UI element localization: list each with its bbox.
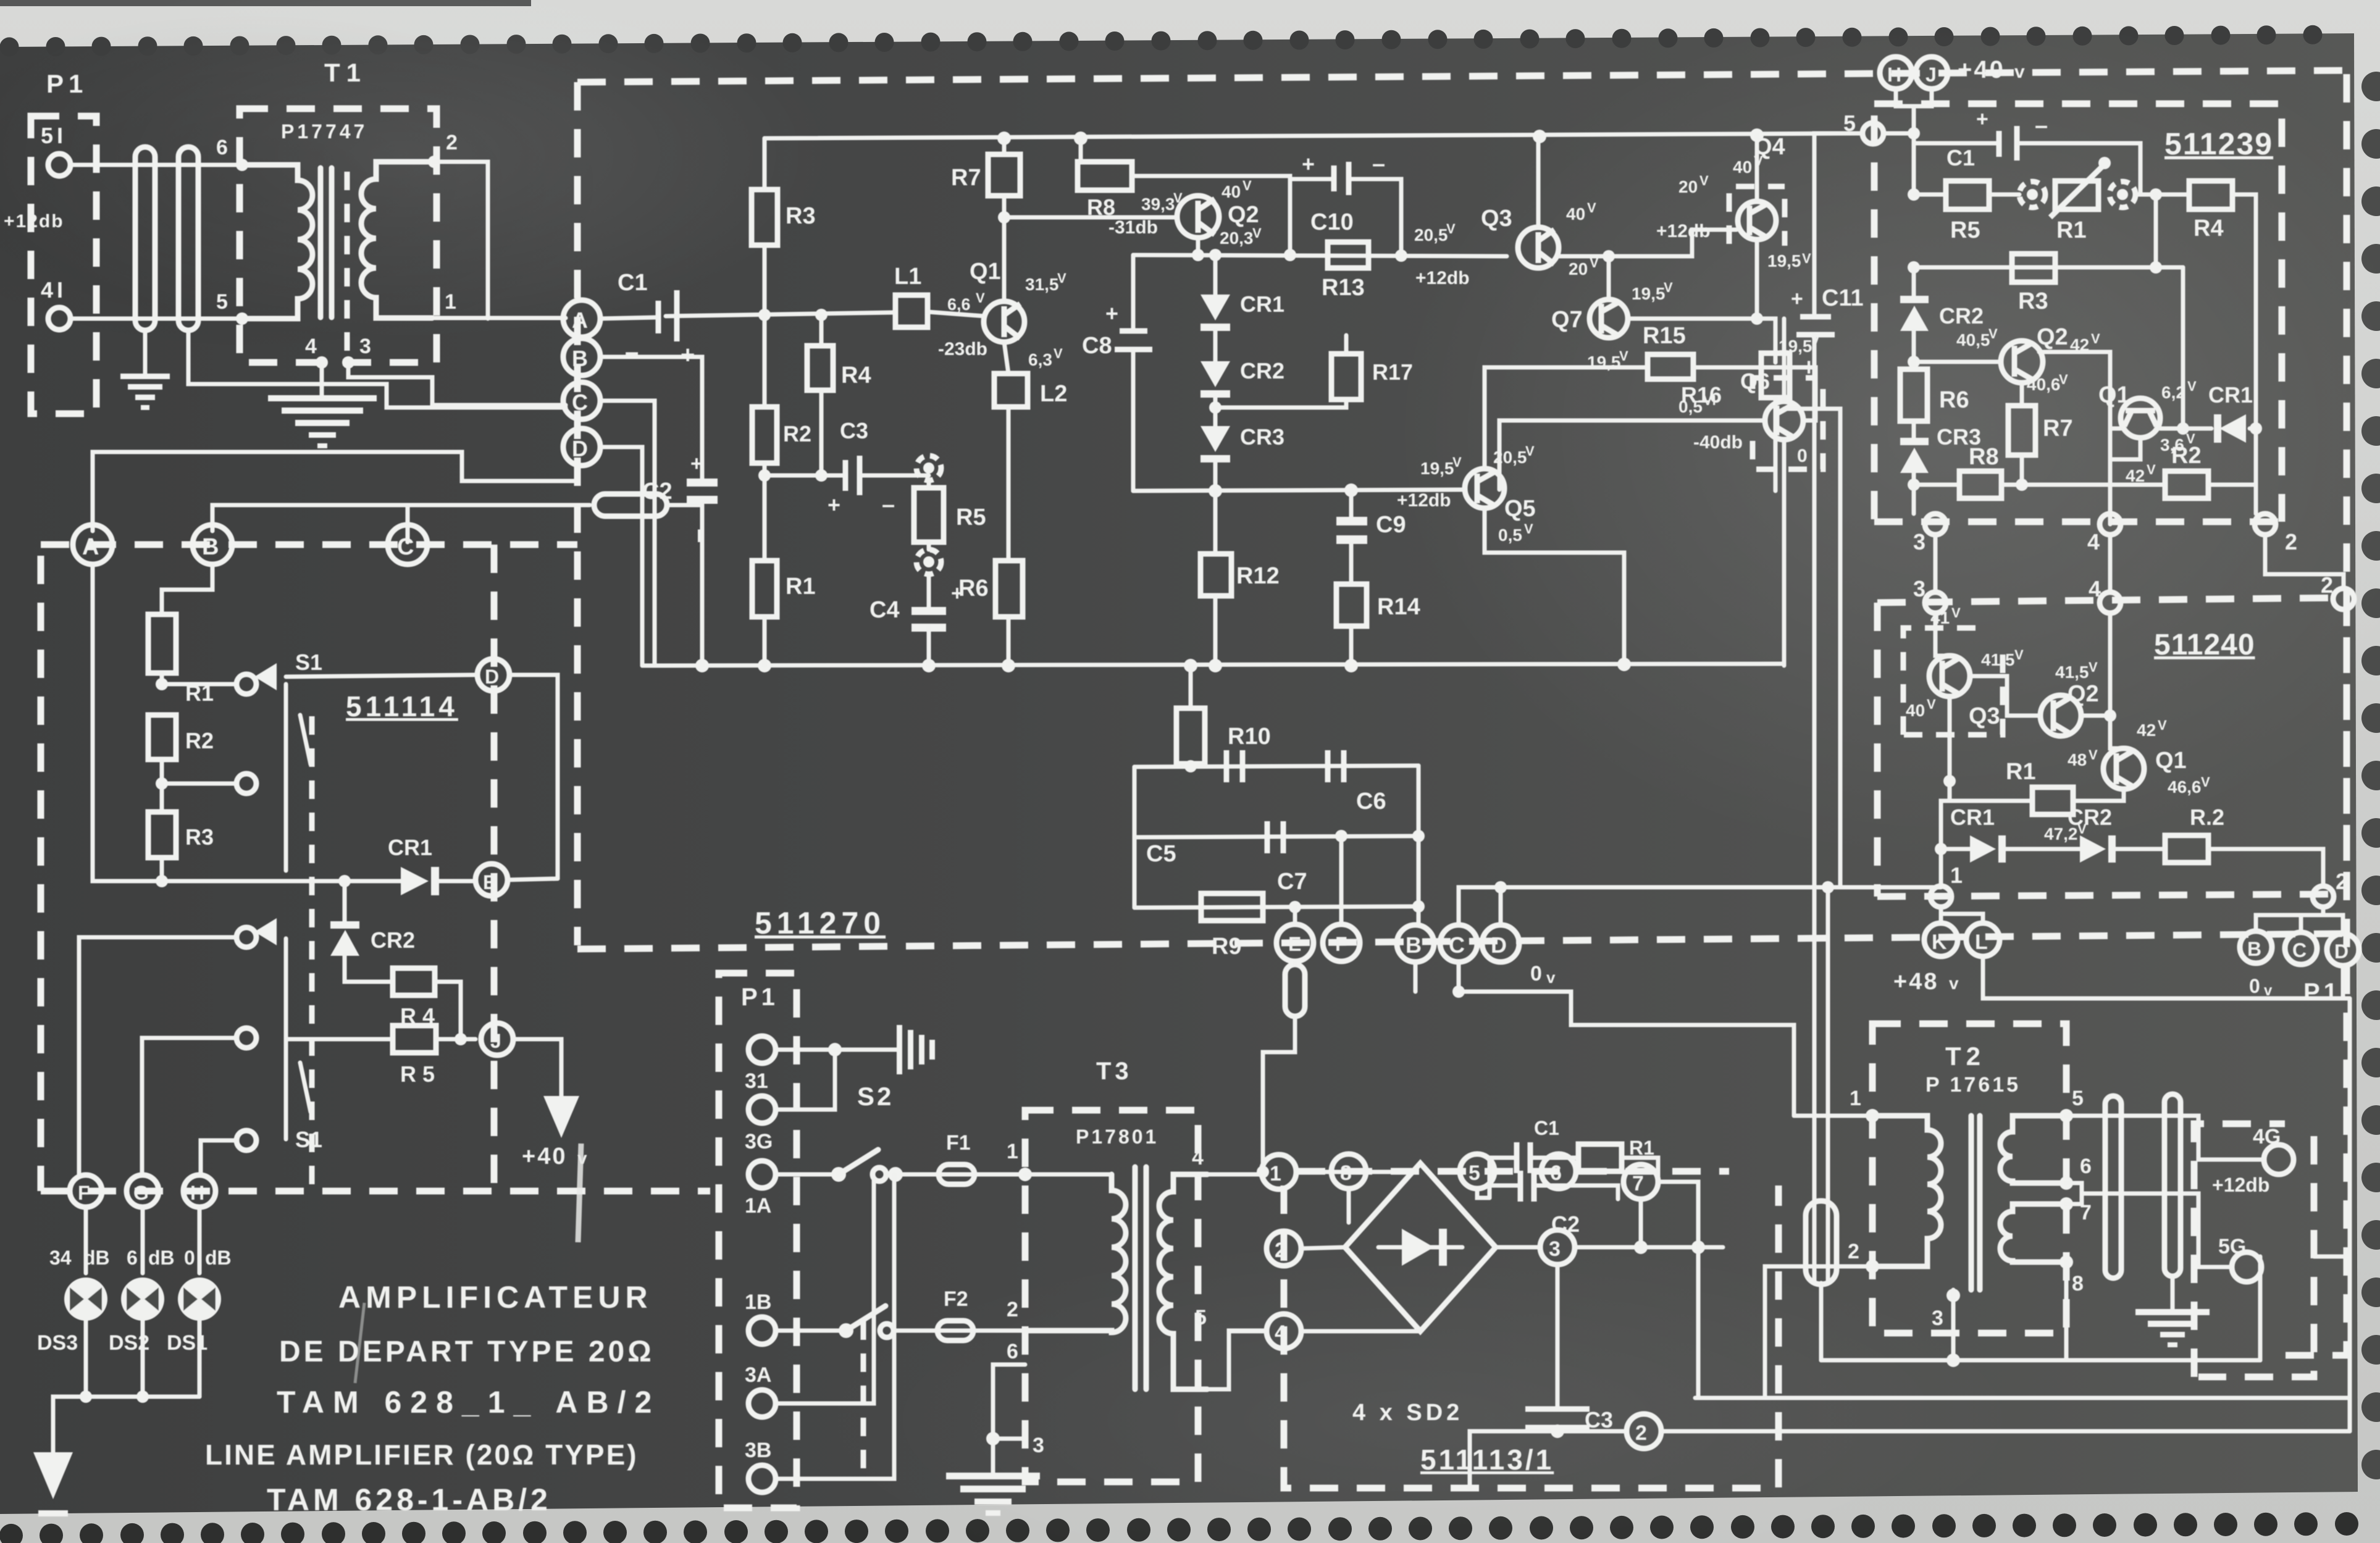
svg-text:R8: R8	[1969, 444, 1999, 470]
wire 1A to S2	[776, 1173, 839, 1177]
wire P1-5I to T1-6	[70, 163, 242, 167]
T2 core	[1969, 1116, 1974, 1290]
wire CR1 row	[93, 564, 401, 881]
svg-text:A: A	[82, 534, 99, 560]
wire to ground arrow	[53, 1397, 86, 1452]
transformer T1 dashed box	[240, 109, 437, 362]
svg-text:Q2: Q2	[2037, 324, 2068, 350]
svg-text:42: 42	[2126, 466, 2145, 485]
resistor R3	[752, 190, 777, 245]
S1a wiper line	[284, 684, 288, 871]
Q4 dashed bracket	[1729, 186, 1785, 244]
wire pin1 to +48 feed	[1794, 1114, 1872, 1118]
switch S1b contact 1	[237, 927, 256, 947]
switch S1b contact 2	[237, 1028, 256, 1048]
svg-text:CR1: CR1	[2208, 382, 2253, 408]
svg-text:R.2: R.2	[2190, 805, 2224, 830]
svg-text:6,3: 6,3	[1028, 350, 1052, 369]
ring terminal 5	[1863, 123, 1883, 144]
svg-text:C4: C4	[869, 597, 900, 623]
svg-text:R5: R5	[956, 504, 986, 530]
svg-text:V: V	[2059, 372, 2068, 387]
diodes CR1 CR2 row (511240)	[1935, 843, 1947, 855]
svg-text:V: V	[2014, 647, 2024, 663]
svg-text:R3: R3	[786, 203, 816, 229]
wire Q6 emitter	[1782, 440, 1787, 666]
wire node1 to bridge top	[1296, 1170, 1416, 1174]
lamp feeds	[84, 1207, 88, 1273]
terminal 8	[1331, 1154, 1366, 1189]
svg-text:40: 40	[1221, 182, 1241, 201]
svg-text:CR2: CR2	[371, 927, 415, 953]
wire node B feed	[212, 505, 590, 531]
svg-text:R2: R2	[783, 421, 811, 446]
wire H J join	[1896, 89, 1932, 106]
bridge rectifier diamond	[1345, 1163, 1496, 1331]
svg-text:dB: dB	[205, 1247, 232, 1269]
wire E to rectifier input	[1293, 961, 1297, 964]
svg-text:H: H	[1887, 64, 1901, 86]
svg-text:Q3: Q3	[1969, 703, 2000, 729]
svg-text:3B: 3B	[745, 1439, 771, 1462]
svg-text:+: +	[1976, 107, 1988, 131]
svg-text:511113/1: 511113/1	[1420, 1444, 1554, 1476]
svg-text:C3: C3	[1585, 1407, 1613, 1432]
svg-text:4: 4	[305, 335, 317, 358]
resistor R5 (511270)	[914, 488, 944, 542]
shield oval horizontal	[594, 494, 667, 516]
svg-text:C5: C5	[1146, 841, 1176, 867]
svg-text:5: 5	[1195, 1306, 1207, 1329]
svg-text:C1: C1	[618, 270, 648, 296]
svg-text:–: –	[2035, 113, 2048, 139]
svg-text:+12db: +12db	[4, 211, 64, 232]
wire Q4 emitter to R16	[1757, 240, 1775, 362]
svg-text:V: V	[1619, 348, 1628, 364]
svg-text:V: V	[2201, 774, 2210, 790]
terminal 5	[1460, 1154, 1494, 1189]
svg-text:-40db: -40db	[1693, 432, 1743, 453]
cable shield loop 1	[135, 147, 155, 330]
svg-text:2: 2	[2321, 572, 2333, 598]
svg-text:R13: R13	[1322, 275, 1365, 301]
transistor Q4	[1738, 201, 1776, 240]
node B	[563, 338, 600, 375]
transistor Q1 (511240)	[2103, 748, 2144, 789]
resistor R6 (511239)	[1912, 362, 1916, 369]
cable shield loop 2	[178, 147, 198, 330]
svg-text:Q7: Q7	[1551, 307, 1583, 333]
wire Q1 row / CR1	[2110, 427, 2121, 431]
diode CR2	[1213, 331, 1218, 361]
svg-text:-31db: -31db	[1108, 217, 1158, 238]
svg-text:D: D	[572, 436, 588, 461]
dashed stub below S2	[861, 1321, 866, 1482]
node A	[563, 300, 600, 337]
resistor R1 (511114)	[162, 564, 212, 614]
ground sideways	[835, 1048, 897, 1052]
wire 0v pair down through shield	[1812, 666, 1817, 1283]
svg-text:B: B	[1406, 932, 1422, 958]
terminal 7	[1624, 1165, 1658, 1199]
svg-text:4: 4	[2087, 529, 2100, 554]
svg-text:C1: C1	[1946, 145, 1975, 170]
svg-text:C: C	[572, 390, 588, 415]
node C	[388, 525, 427, 564]
svg-text:P17801: P17801	[1076, 1126, 1159, 1148]
terminal 4 (bridge left low)	[1267, 1314, 1301, 1349]
ground under shield1	[120, 374, 170, 410]
svg-text:Q1: Q1	[2098, 382, 2130, 408]
wire A to C1	[600, 317, 657, 319]
resistor R2 (511240)	[2165, 835, 2208, 863]
resistor R3 (511114)	[148, 812, 176, 858]
wire pin5 to 4G	[2066, 1116, 2264, 1160]
block 511240 dashed bottom	[1877, 894, 2347, 897]
svg-text:5I: 5I	[41, 123, 67, 148]
svg-text:V: V	[1699, 173, 1709, 188]
svg-text:0,5: 0,5	[1678, 397, 1703, 416]
svg-text:19,5: 19,5	[1420, 459, 1454, 478]
svg-text:6,6: 6,6	[947, 295, 971, 314]
svg-text:Q5: Q5	[1504, 496, 1536, 522]
wire D to wiper	[286, 675, 477, 677]
svg-text:1: 1	[445, 290, 456, 314]
wire CR2 to R4	[345, 956, 393, 982]
nodes B C D right	[2240, 931, 2272, 963]
wire CR2 to Q2 base	[1914, 331, 2001, 362]
svg-text:P1: P1	[2303, 979, 2341, 1006]
svg-text:+12db: +12db	[1415, 268, 1470, 288]
svg-text:V: V	[1242, 178, 1252, 193]
svg-text:C1: C1	[1534, 1117, 1559, 1139]
svg-text:8: 8	[2072, 1272, 2084, 1295]
lamp DS2	[121, 1277, 164, 1321]
svg-text:42: 42	[2137, 721, 2156, 740]
svg-text:I: I	[697, 526, 702, 546]
wires BCD ties	[2256, 915, 2343, 934]
diode CR1 (511239)	[2219, 414, 2246, 443]
svg-text:–: –	[625, 338, 639, 366]
svg-text:B: B	[2247, 938, 2261, 960]
svg-text:v: v	[1949, 974, 1959, 993]
svg-text:E: E	[1288, 933, 1301, 955]
svg-text:D: D	[1491, 932, 1507, 958]
wire 1B to S2b	[776, 1329, 846, 1333]
svg-text:511240: 511240	[2154, 629, 2255, 661]
wire P1-4I to T1-5	[70, 317, 242, 321]
T2 secondary upper	[2000, 1116, 2066, 1183]
svg-text:39,3: 39,3	[1141, 194, 1175, 214]
dashed terminals row	[1297, 1168, 1729, 1175]
block 511239 dashed box	[1871, 115, 1878, 522]
svg-text:LINE AMPLIFIER (20Ω TYPE): LINE AMPLIFIER (20Ω TYPE)	[205, 1439, 639, 1471]
svg-text:F: F	[1335, 933, 1347, 955]
svg-text:5: 5	[1469, 1161, 1480, 1185]
svg-text:41,5: 41,5	[2055, 663, 2089, 682]
wire 3A up	[776, 1181, 874, 1403]
svg-text:3: 3	[1932, 1307, 1943, 1330]
T1 pin 3	[342, 356, 354, 369]
wire node A feed	[93, 452, 577, 531]
svg-text:+12db: +12db	[1397, 490, 1451, 511]
main dashed box left edge	[574, 82, 581, 945]
T1 electrostatic screen	[345, 172, 350, 362]
svg-text:R14: R14	[1377, 594, 1420, 620]
svg-text:0: 0	[184, 1247, 195, 1269]
svg-text:R15: R15	[1643, 323, 1686, 349]
svg-text:511114: 511114	[346, 690, 458, 722]
svg-text:20,5: 20,5	[1414, 225, 1448, 245]
node E	[439, 879, 476, 884]
wire Q5 emitter	[1485, 508, 1624, 666]
svg-text:I: I	[1806, 358, 1811, 378]
node D	[563, 429, 600, 466]
wire B into network	[600, 357, 702, 452]
wire shield1 to ground	[143, 330, 148, 374]
svg-text:6: 6	[1550, 1161, 1562, 1185]
T1 pin 5	[236, 312, 248, 325]
ring terminal 3 row2	[1925, 592, 1946, 613]
wire Q1 collector / Q2 base	[1004, 215, 1176, 220]
svg-text:E: E	[483, 871, 496, 893]
mechanical link dashed	[309, 716, 315, 1185]
svg-text:19,5: 19,5	[1767, 251, 1801, 270]
wire output joint	[1784, 409, 1840, 887]
wire T1-3 down right	[348, 362, 566, 405]
capacitor C10 loop	[1290, 179, 1333, 255]
svg-text:C3: C3	[840, 418, 868, 443]
S1b wiper line	[284, 939, 288, 1139]
resistor R7 (511239)	[2008, 406, 2035, 455]
svg-text:5: 5	[216, 290, 228, 314]
svg-text:20,3: 20,3	[1220, 228, 1254, 248]
node K	[1939, 907, 1943, 924]
svg-text:+: +	[1791, 287, 1803, 311]
svg-text:Q2: Q2	[1228, 202, 1259, 228]
block 511240 dashed top	[1877, 598, 2347, 603]
bridge box dashed	[1284, 1185, 1779, 1488]
svg-text:+40: +40	[522, 1144, 567, 1169]
svg-text:+: +	[690, 452, 703, 475]
svg-text:1: 1	[1950, 863, 1963, 888]
wire contact1 to F	[79, 937, 237, 1175]
input stage ground rail	[642, 664, 1784, 666]
svg-text:v: v	[1546, 968, 1556, 987]
transistor Q2 (511240)	[2040, 695, 2081, 736]
sprocket holes right	[2361, 72, 2380, 101]
lamp DS3	[64, 1277, 107, 1321]
transistor Q2 (511239)	[2001, 341, 2043, 383]
potentiometer R1 (511239)	[1989, 193, 2019, 197]
node A	[73, 525, 112, 564]
svg-text:Q1: Q1	[970, 259, 1001, 285]
svg-text:+: +	[828, 492, 840, 517]
svg-text:20: 20	[1678, 177, 1698, 196]
node D (511114)	[477, 659, 509, 691]
left vertical of cap rows	[1133, 767, 1137, 908]
Q3 dashed bracket	[1903, 628, 1976, 735]
capacitor C3 (rectifier)	[1556, 1265, 1560, 1409]
wire C bottom to +48 feed	[1459, 962, 1794, 1116]
capacitor C4	[927, 574, 931, 607]
svg-text:L1: L1	[894, 264, 921, 290]
node F	[70, 1175, 102, 1207]
svg-text:R2: R2	[2171, 443, 2202, 469]
svg-text:40: 40	[1906, 701, 1925, 720]
wire pin8 down	[2064, 1262, 2069, 1360]
svg-text:A: A	[572, 307, 588, 333]
resistor R4 (511270)	[807, 346, 833, 390]
svg-text:Q2: Q2	[2068, 681, 2099, 707]
wire R3 bottom to input row	[763, 245, 767, 407]
svg-text:R5: R5	[1950, 217, 1980, 243]
wire Q3 base to Q2	[1970, 676, 2040, 716]
svg-text:6: 6	[127, 1247, 138, 1269]
svg-text:dB: dB	[148, 1247, 175, 1269]
wire ring5 to C11	[1814, 133, 1863, 314]
resistor R1 (rectifier)	[1578, 1144, 1622, 1171]
wire 8 down	[1347, 1189, 1351, 1223]
connecting verticals rows	[1934, 535, 1938, 592]
svg-text:T3: T3	[1096, 1058, 1133, 1085]
connector P1 dashed box	[31, 116, 96, 414]
svg-text:T1: T1	[324, 58, 367, 87]
wire T1-1 to junction	[434, 316, 566, 320]
ring terminal 4 row2	[2100, 592, 2121, 613]
svg-text:P1: P1	[741, 984, 779, 1011]
transistor Q1 (511239)	[2121, 398, 2160, 438]
wire F1 to T3-1	[974, 1173, 1025, 1177]
T1 primary winding	[242, 165, 312, 319]
node B bottom	[1397, 925, 1434, 962]
resistor R2 (511114)	[148, 715, 176, 759]
svg-text:L2: L2	[1040, 381, 1067, 407]
transistor Q3 (511240)	[1929, 656, 1970, 696]
svg-text:VI: VI	[1703, 393, 1716, 408]
resistor R1 (511240)	[1950, 696, 2032, 801]
wire to contact 1	[162, 673, 237, 684]
terminal 1 (bridge)	[1262, 1155, 1296, 1189]
resistor R16	[1761, 353, 1790, 398]
switch S2 blade a	[839, 1150, 878, 1174]
svg-text:v: v	[2264, 982, 2273, 999]
T1 core	[318, 168, 324, 317]
svg-text:40,6: 40,6	[2027, 375, 2061, 394]
svg-text:C2: C2	[642, 479, 673, 504]
svg-text:C2: C2	[1551, 1211, 1580, 1237]
terminal 6	[1541, 1154, 1576, 1189]
svg-text:+: +	[1105, 301, 1118, 326]
capacitor C2 (rectifier)	[1490, 1184, 1518, 1188]
wire T3-4 to node 1	[1207, 1173, 1262, 1177]
T2 primary	[1872, 1116, 1941, 1266]
svg-text:2: 2	[2285, 529, 2297, 554]
resistor R3 (511239)	[1914, 266, 2183, 270]
svg-text:R10: R10	[1228, 724, 1271, 750]
transistor Q2	[1177, 196, 1219, 238]
svg-text:7: 7	[1632, 1172, 1644, 1195]
svg-text:CR1: CR1	[388, 835, 432, 860]
svg-text:46,6: 46,6	[2168, 777, 2202, 797]
node L	[1966, 923, 2000, 956]
svg-text:V: V	[976, 290, 985, 306]
node E	[1293, 907, 1297, 924]
svg-text:B: B	[202, 534, 219, 560]
ring terminal 1	[1930, 886, 1951, 907]
svg-text:+48: +48	[1893, 969, 1938, 995]
svg-text:4: 4	[2089, 576, 2101, 601]
mid bias rail	[1133, 490, 1465, 491]
wire C,D bottom to right	[1459, 887, 1941, 925]
svg-text:T2: T2	[1945, 1042, 1985, 1071]
wire C feed	[406, 506, 410, 542]
wire 3B right	[776, 1174, 894, 1479]
svg-text:V: V	[1525, 443, 1535, 459]
svg-text:4: 4	[1192, 1146, 1204, 1169]
wire 31 3G join	[776, 1050, 835, 1110]
ground under T1	[268, 395, 377, 448]
svg-text:V: V	[2089, 659, 2098, 675]
svg-text:-23db: -23db	[938, 339, 987, 359]
ground under shield	[2171, 1276, 2175, 1309]
resistor R6 (511270)	[995, 561, 1023, 617]
pin 3G	[748, 1096, 776, 1123]
svg-text:V: V	[1524, 521, 1533, 537]
svg-text:31: 31	[745, 1069, 768, 1093]
svg-text:V: V	[1587, 200, 1596, 215]
resistor R1 (511270)	[752, 561, 777, 617]
svg-text:–: –	[882, 492, 895, 518]
wire Q3 collector to rail	[1536, 136, 1541, 227]
trimmer wiper top	[916, 456, 941, 480]
svg-text:5: 5	[2072, 1087, 2084, 1110]
diode CR2 (511114)	[343, 881, 347, 925]
svg-text:S2: S2	[857, 1082, 894, 1111]
svg-text:P17747: P17747	[281, 120, 367, 143]
switch S1a contact 2	[237, 774, 256, 793]
svg-text:0,5: 0,5	[1498, 525, 1522, 545]
svg-text:3: 3	[1913, 529, 1925, 554]
wire oval to C2 stem	[667, 503, 702, 508]
svg-text:Q1: Q1	[2155, 748, 2187, 774]
svg-text:2: 2	[446, 131, 458, 154]
wire to contact 2	[162, 759, 237, 784]
svg-text:C: C	[1449, 932, 1465, 958]
outer dashed right edge	[2279, 74, 2347, 1355]
capacitor C3 row	[765, 474, 844, 478]
capacitor C1 (rectifier)	[1477, 1189, 1490, 1198]
svg-text:DS3: DS3	[37, 1331, 78, 1355]
svg-text:V: V	[1452, 454, 1462, 470]
resistor R14	[1336, 584, 1367, 626]
svg-text:R1: R1	[2006, 759, 2036, 785]
wire to rail1	[1819, 1283, 1824, 1360]
T2 pin 5	[2059, 1109, 2073, 1123]
diode CR2 (511239)	[1912, 267, 1916, 299]
transistor Q1	[984, 301, 1024, 342]
svg-text:6: 6	[216, 136, 228, 159]
T3 secondary	[1159, 1174, 1207, 1389]
svg-text:3A: 3A	[745, 1363, 771, 1387]
pin 3B	[748, 1465, 776, 1492]
transformer T3 dashed box	[1025, 1110, 1198, 1482]
svg-text:J: J	[490, 1030, 501, 1052]
svg-text:511239: 511239	[2164, 127, 2273, 161]
svg-text:41,5: 41,5	[1981, 650, 2015, 669]
dashed rail through F G H	[41, 1188, 710, 1195]
wire bridge bottom left	[1301, 1329, 1420, 1334]
